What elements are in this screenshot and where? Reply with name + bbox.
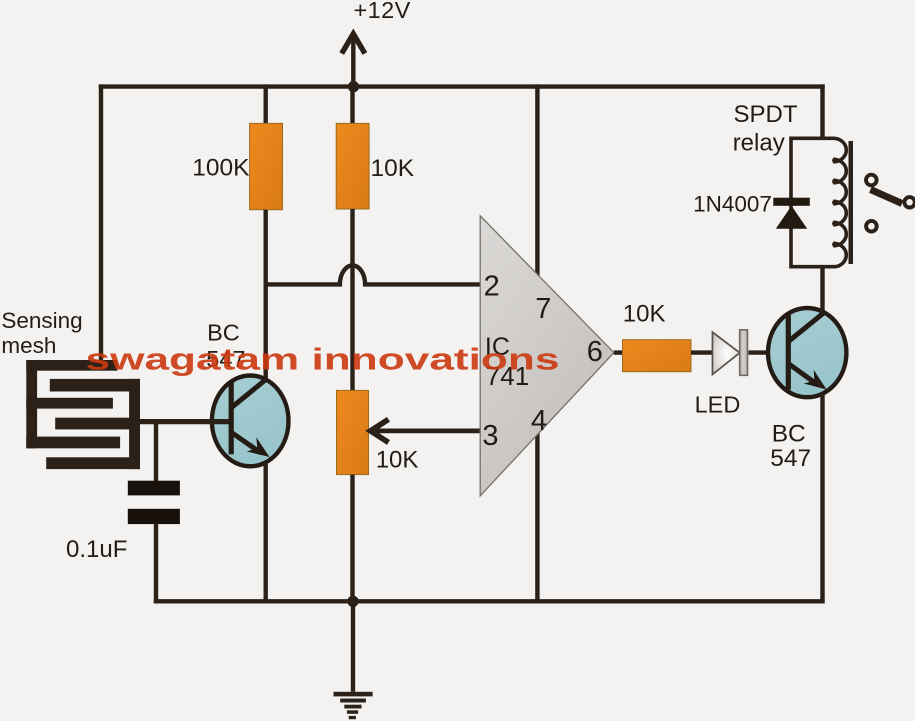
svg-text:3: 3 [482,420,498,452]
svg-text:7: 7 [535,293,551,325]
transistor Q2 BC547 [768,308,846,397]
wire: mesh to Q1 base [140,419,229,424]
svg-text:Sensing: Sensing [1,308,82,333]
wire: left branch from rail down to sensing mesh [99,84,103,364]
resistor R1 100K [250,123,283,209]
relay outline box [791,138,835,266]
svg-text:+12V: +12V [354,0,411,23]
wire: 10K output to LED anode [691,350,713,354]
svg-text:6: 6 [587,336,603,368]
wire: top +12V rail [99,84,825,88]
wire: rail to 100K top [264,84,268,125]
wire: pin3 wire with wiper arrow into preset [371,419,481,442]
relay contact: common right [904,197,914,207]
svg-text:SPDT: SPDT [734,101,798,128]
wire: capacitor bottom to ground rail [154,524,158,604]
svg-text:10K: 10K [376,446,419,473]
capacitor C1 0.1uF [128,481,180,524]
wire: relay bottom to Q2 collector [820,267,824,314]
wire: 10K bottom down to preset top [350,209,354,392]
preset P1 10K [337,390,369,474]
transistor Q1 BC547 [212,376,289,467]
ground symbol [334,601,373,719]
wire: preset bottom to ground rail [350,475,354,602]
svg-text:2: 2 [484,270,500,302]
svg-text:547: 547 [770,445,811,472]
svg-text:10K: 10K [623,301,666,328]
svg-text:100K: 100K [192,155,250,182]
wire: right branch from rail down to relay top [820,84,824,140]
relay contact lever [871,190,903,204]
+12V supply arrow [342,34,365,87]
node: junction on bottom rail [347,596,358,607]
wire: Q2 emitter down to ground rail [820,394,824,601]
svg-text:1N4007: 1N4007 [693,191,772,216]
node: junction of +12V with rail [348,81,359,92]
wire: bottom ground rail [154,599,825,603]
LED D2 [713,330,748,376]
wire: op-amp output to 10K resistor [614,350,624,354]
resistor R3 10K [623,340,692,372]
wire: rail to 10K top [350,84,354,125]
svg-text:0.1uF: 0.1uF [66,536,127,563]
svg-text:4: 4 [531,405,547,437]
relay core bar [849,141,854,264]
diode D1 1N4007 [773,198,810,229]
wire: 100K bottom down to Q1 collector [264,210,268,378]
resistor R2 10K [336,123,369,209]
wire: op-amp supply line pin7/pin4 (behind triangle) [535,84,539,601]
wire: capacitor branch down [154,422,158,483]
svg-text:10K: 10K [371,155,415,182]
wire: pin2 wire with hop over vertical wire [264,265,481,284]
svg-text:swagatam innovations: swagatam innovations [86,342,560,377]
wire: Q1 emitter down to ground rail [264,464,268,601]
svg-text:BC: BC [772,420,806,447]
relay contact: bottom [866,221,877,232]
relay coil [834,138,846,266]
op-amp U1 IC741 [480,216,614,496]
svg-text:LED: LED [695,391,741,417]
svg-text:mesh: mesh [1,333,56,358]
sensing mesh electrode [26,360,140,469]
relay contact: top [866,175,877,186]
wire: LED cathode to Q2 base [748,350,786,354]
svg-text:relay: relay [733,129,785,156]
